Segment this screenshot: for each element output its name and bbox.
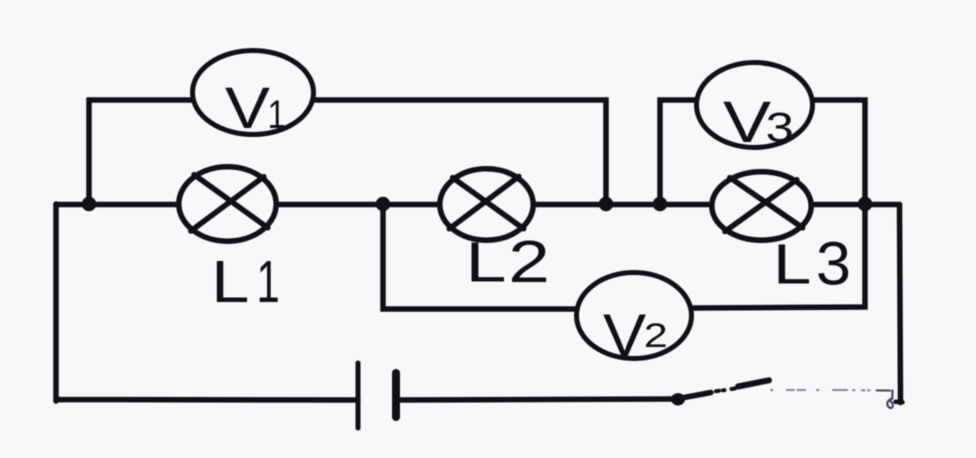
- wire main bus right segment: [814, 202, 900, 208]
- svg-text:V: V: [603, 303, 647, 369]
- svg-text:2: 2: [644, 317, 668, 355]
- wire V1 right tap: [315, 100, 606, 204]
- right wire bottom foot: [896, 400, 903, 405]
- battery short plate (negative): [392, 373, 400, 417]
- label L3: [773, 230, 851, 298]
- battery long plate (positive): [356, 363, 361, 428]
- wire V3 left tap: [660, 100, 696, 204]
- label L1: [211, 248, 280, 314]
- voltmeter V1: [193, 51, 314, 135]
- switch blade dashes: [716, 389, 735, 392]
- wire main bus left segment: [56, 202, 176, 208]
- switch faint dash-dot guide line: [771, 389, 870, 391]
- node junction V1 left: [82, 197, 96, 211]
- node junction V2 left: [376, 197, 390, 211]
- switch blade main: [738, 380, 769, 386]
- svg-text:2: 2: [508, 229, 550, 295]
- wire battery to switch: [398, 399, 672, 400]
- label L2: [466, 229, 550, 295]
- wire main bus L2-L3 segment: [536, 202, 710, 208]
- label V3: [723, 90, 794, 155]
- wire V1 left tap: [89, 100, 191, 204]
- node junction V3/V2 right: [858, 197, 872, 211]
- svg-text:3: 3: [766, 104, 794, 151]
- lamp L3: [712, 172, 811, 240]
- svg-text:V: V: [723, 90, 771, 155]
- svg-text:L: L: [466, 230, 507, 294]
- svg-text:1: 1: [268, 92, 286, 137]
- wire V3 right tap: [814, 100, 865, 204]
- switch contact hook: [887, 391, 892, 409]
- wire main bus L1-L2 segment: [279, 202, 437, 208]
- label V2: [603, 303, 668, 369]
- svg-text:3: 3: [816, 230, 851, 298]
- svg-text:L: L: [211, 248, 249, 314]
- svg-text:L: L: [773, 233, 811, 296]
- lamp L1: [179, 167, 276, 241]
- svg-text:V: V: [225, 76, 270, 141]
- wire right branch down: [900, 205, 901, 403]
- lamp L2: [440, 169, 533, 240]
- wire V2 right tap: [693, 204, 865, 308]
- switch faint dash darker end: [877, 389, 891, 391]
- node junction V1 right: [599, 197, 613, 211]
- label V1: [225, 76, 286, 141]
- voltmeter V3: [697, 63, 813, 148]
- wire left branch down: [56, 204, 358, 401]
- wire V2 left tap: [383, 204, 575, 309]
- voltmeter V2: [577, 273, 692, 359]
- node junction V3 left: [653, 197, 667, 211]
- switch pivot node: [671, 393, 685, 405]
- switch blade stub: [684, 393, 711, 398]
- svg-text:1: 1: [257, 249, 280, 315]
